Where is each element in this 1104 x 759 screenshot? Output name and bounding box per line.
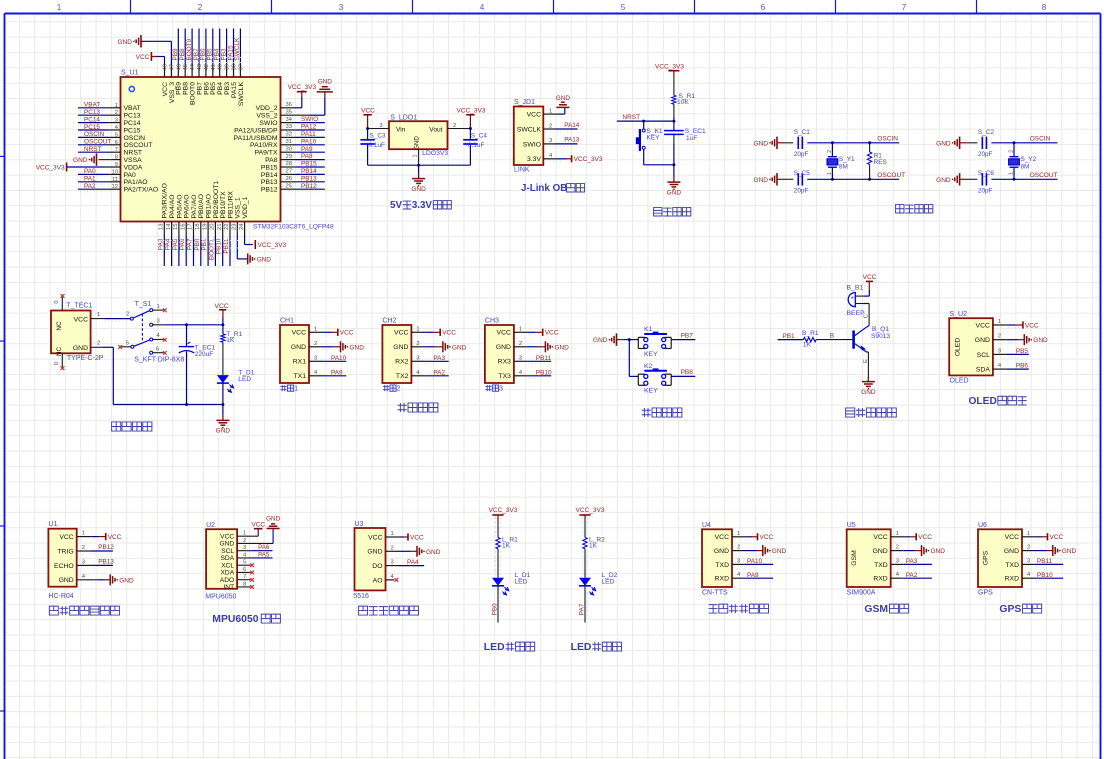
module U6 GPS body [978, 529, 1022, 587]
svg-text:PA7/AO: PA7/AO [191, 194, 198, 218]
power flag VCC [542, 329, 544, 336]
svg-text:PA3: PA3 [906, 558, 918, 565]
svg-text:GND: GND [754, 177, 769, 184]
mcu U1 pin 48 VCC (top) [164, 66, 166, 78]
svg-text:NRST: NRST [84, 146, 101, 153]
svg-text:2: 2 [1027, 545, 1030, 551]
svg-text:2: 2 [314, 341, 317, 347]
svg-text:OSCIN: OSCIN [1030, 136, 1051, 143]
title reset circuit [654, 208, 662, 216]
power flag VCC [757, 533, 759, 540]
svg-text:INT: INT [223, 584, 234, 591]
svg-text:1: 1 [412, 154, 418, 157]
wire gnd rail [368, 164, 471, 166]
svg-text:PC15: PC15 [84, 124, 100, 131]
svg-text:1: 1 [97, 312, 100, 318]
mcu U1 pin 21 PB10/TX (bottom) [222, 222, 224, 237]
svg-text:GND: GND [426, 549, 441, 556]
wire to resistor [497, 522, 499, 538]
svg-text:1: 1 [391, 531, 394, 537]
svg-text:OLED: OLED [969, 396, 997, 407]
module U2 MPU6050 body [206, 529, 237, 589]
wire buzzer top terminal to VCC [855, 295, 864, 297]
svg-text:PA3: PA3 [433, 355, 445, 362]
wire to ground [673, 165, 675, 177]
serial header CH2 [382, 325, 411, 383]
svg-text:3: 3 [82, 559, 85, 565]
svg-text:VSS_1: VSS_1 [235, 197, 242, 218]
svg-text:PB1/AO: PB1/AO [206, 194, 213, 219]
svg-text:VCC: VCC [220, 533, 234, 540]
svg-text:BEEP: BEEP [847, 310, 866, 317]
svg-text:2: 2 [737, 545, 740, 551]
LED L_D2 [579, 578, 591, 586]
svg-text:LED: LED [515, 578, 528, 585]
svg-text:48: 48 [163, 64, 169, 70]
svg-text:44: 44 [190, 63, 196, 70]
svg-text:20pF: 20pF [794, 188, 809, 195]
svg-text:1: 1 [1027, 531, 1030, 537]
svg-text:3: 3 [998, 348, 1001, 354]
svg-text:S_U1: S_U1 [121, 70, 139, 77]
svg-text:OSCOUT: OSCOUT [84, 139, 111, 146]
svg-text:Vout: Vout [429, 126, 442, 133]
svg-text:PC14: PC14 [124, 120, 141, 127]
serial header CH3 [485, 325, 514, 383]
mcu U1 pin 43 PB7 (top) [198, 66, 200, 78]
svg-text:2: 2 [998, 334, 1001, 340]
svg-text:GND: GND [118, 39, 133, 46]
mcu U1 pin 35 VSS_2 [281, 114, 311, 116]
svg-text:PB10: PB10 [1037, 572, 1053, 579]
mcu U1 pin 5 OSCIN [78, 136, 108, 138]
svg-text:26: 26 [286, 176, 292, 182]
svg-text:RXD: RXD [873, 576, 887, 583]
svg-text:GND: GND [73, 345, 88, 352]
mcu U1 pin 7 NRST [78, 151, 108, 153]
mcu U1 pin 47 VSS_3 (top) [170, 66, 172, 78]
svg-text:7: 7 [115, 147, 118, 153]
svg-text:8: 8 [115, 155, 118, 161]
mcu U1 pin 6 OSCOUT [78, 144, 108, 146]
capacitor C5 20pF [797, 173, 799, 185]
mcu U1 pin 28 PB15 [281, 166, 297, 168]
svg-text:1: 1 [737, 531, 740, 537]
svg-text:+: + [851, 295, 854, 301]
svg-text:28: 28 [286, 161, 292, 167]
svg-text:SWCLK: SWCLK [234, 37, 241, 60]
svg-text:CN-TTS: CN-TTS [702, 590, 728, 597]
svg-text:VCC: VCC [918, 534, 932, 541]
svg-text:VCC: VCC [136, 54, 150, 61]
selection dots top labels [170, 57, 244, 59]
switch stub pin6 [153, 352, 164, 354]
svg-text:BOOT1: BOOT1 [208, 238, 215, 260]
push button K2 KEY [644, 370, 667, 372]
svg-text:GND: GND [1033, 337, 1048, 344]
LDO regulator S_LDO1 body [389, 121, 448, 149]
svg-text:1: 1 [416, 326, 419, 332]
svg-text:PA2: PA2 [433, 369, 445, 376]
svg-text:13: 13 [159, 224, 165, 230]
svg-text:PB13: PB13 [301, 175, 317, 182]
svg-text:PB5: PB5 [1016, 348, 1029, 355]
mcu U1 pin 13 PA3/RX/AO (bottom) [163, 222, 165, 237]
svg-text:38: 38 [232, 64, 238, 70]
svg-text:24: 24 [239, 223, 245, 230]
svg-text:7: 7 [902, 2, 907, 12]
svg-text:S9013: S9013 [871, 333, 890, 340]
mcu U1 STM32F103C8T6 body [121, 77, 281, 222]
mcu U1 pin 31 PA10/RX [281, 144, 297, 146]
svg-text:1: 1 [115, 103, 118, 109]
svg-text:8M: 8M [1021, 164, 1030, 171]
mcu U1 pin 27 PB14 [281, 173, 297, 175]
svg-text:1: 1 [827, 172, 833, 175]
svg-text:PB13: PB13 [261, 179, 278, 186]
svg-text:LINK: LINK [514, 167, 530, 174]
svg-text:T_S1: T_S1 [135, 301, 152, 308]
svg-text:8: 8 [1042, 2, 1047, 12]
svg-text:PA1: PA1 [84, 176, 96, 183]
power flag VCC [367, 115, 369, 129]
svg-text:3: 3 [314, 355, 317, 361]
svg-text:GND: GND [931, 548, 946, 555]
svg-text:VCC: VCC [873, 534, 887, 541]
svg-text:2: 2 [115, 110, 118, 116]
mcu U1 pin 2 PC13 [78, 114, 108, 116]
svg-text:GND: GND [975, 337, 990, 344]
svg-text:10K: 10K [677, 99, 689, 106]
mcu U1 pin 45 PB8 (top) [184, 66, 186, 78]
svg-text:PC13: PC13 [84, 109, 100, 116]
svg-text:GND: GND [873, 548, 888, 555]
svg-text:GSM: GSM [864, 604, 888, 615]
svg-text:GND: GND [936, 140, 951, 147]
mcu U1 pin 8 VSSA [99, 159, 113, 161]
ground (C1 top) [776, 137, 778, 149]
svg-text:K2: K2 [644, 363, 653, 370]
svg-text:PB15: PB15 [301, 161, 317, 168]
ground [416, 546, 418, 557]
LED L_D1 [492, 578, 504, 586]
mcu U1 pin 15 PA5/AO (bottom) [178, 222, 180, 237]
svg-text:PA11/USB/DM: PA11/USB/DM [234, 135, 278, 142]
power flag VCC_3V3 [571, 155, 573, 162]
svg-text:23: 23 [232, 224, 238, 230]
wire buzzer bottom terminal to collector [855, 303, 864, 305]
svg-text:1: 1 [896, 531, 899, 537]
svg-text:PA5/AO: PA5/AO [176, 194, 183, 218]
svg-text:2: 2 [397, 384, 401, 393]
svg-text:S_Y2: S_Y2 [1021, 156, 1037, 163]
ground (C6 bottom) [959, 173, 961, 185]
svg-text:LED: LED [571, 642, 592, 653]
resistor L_R1 1K [496, 538, 500, 549]
svg-text:PB12: PB12 [98, 544, 114, 551]
svg-text:2: 2 [416, 341, 419, 347]
capacitor S_EC1 1uF [673, 121, 675, 130]
svg-text:VBAT: VBAT [124, 105, 141, 112]
svg-text:20pF: 20pF [978, 188, 993, 195]
svg-text:5: 5 [126, 340, 129, 346]
svg-text:31: 31 [286, 139, 292, 145]
svg-text:PB6: PB6 [1016, 363, 1029, 370]
svg-text:32: 32 [286, 132, 292, 138]
wire resistor to LED [497, 549, 499, 578]
ground [1052, 545, 1054, 556]
svg-text:VCC: VCC [715, 534, 729, 541]
title ultrasonic module [49, 606, 58, 615]
mcu U1 pin 17 PA7/AO (bottom) [193, 222, 195, 237]
mcu U1 pin 23 VSS_1 (bottom) [236, 222, 238, 237]
svg-text:MPU6050: MPU6050 [205, 594, 236, 601]
svg-text:S_LDO1: S_LDO1 [390, 115, 417, 122]
svg-text:PA11: PA11 [301, 131, 316, 138]
svg-text:14: 14 [166, 223, 172, 230]
svg-text:TXD: TXD [715, 562, 729, 569]
svg-text:3.3V: 3.3V [412, 200, 433, 211]
svg-text:LED: LED [602, 578, 615, 585]
svg-text:GPS: GPS [999, 604, 1021, 615]
svg-text:PA1/AO: PA1/AO [124, 179, 148, 186]
wire vin pin 3 [368, 128, 389, 130]
resistor T_R1 1K [221, 334, 225, 342]
svg-text:VCC_3V3: VCC_3V3 [489, 507, 518, 514]
svg-text:PA9/TX: PA9/TX [255, 150, 278, 157]
svg-text:5: 5 [621, 2, 626, 12]
svg-text:PB14: PB14 [301, 168, 317, 175]
svg-text:1K: 1K [589, 542, 598, 549]
ground (J-Link VCC pin) [556, 106, 569, 108]
svg-text:11: 11 [112, 177, 118, 183]
svg-text:8M: 8M [839, 164, 848, 171]
svg-text:1K: 1K [502, 542, 511, 549]
svg-text:46: 46 [176, 64, 182, 70]
svg-text:VCC: VCC [497, 330, 511, 337]
svg-text:18: 18 [195, 224, 201, 230]
svg-text:GND: GND [318, 78, 333, 85]
svg-text:1K: 1K [226, 337, 235, 344]
svg-text:PA10: PA10 [747, 558, 763, 565]
svg-text:AO: AO [373, 577, 383, 584]
svg-text:GND: GND [554, 344, 569, 351]
svg-text:3: 3 [115, 118, 118, 124]
svg-text:K1: K1 [644, 326, 653, 333]
svg-text:S_C4: S_C4 [471, 132, 487, 139]
power flag VCC [105, 533, 107, 540]
mcu U1 pin 16 PA6/AO (bottom) [185, 222, 187, 237]
svg-text:VCC_3V3: VCC_3V3 [576, 507, 605, 514]
svg-text:U6: U6 [978, 522, 987, 529]
svg-text:GND: GND [367, 549, 382, 556]
power flag VCC_3V3 (VDDA) [67, 166, 104, 168]
svg-text:19: 19 [202, 224, 208, 230]
svg-text:SWCLK: SWCLK [238, 82, 245, 107]
wire LED to rail [222, 383, 224, 404]
mcu U1 pin 42 PB6 (top) [205, 66, 207, 78]
wire emitter to ground [867, 380, 869, 382]
svg-text:OSCOUT: OSCOUT [124, 142, 153, 149]
wire vout pin 2 [448, 128, 471, 130]
svg-text:40: 40 [218, 64, 224, 70]
ground (keys) [616, 333, 618, 345]
svg-text:3: 3 [379, 123, 382, 129]
svg-text:MPU6050: MPU6050 [212, 614, 258, 625]
svg-text:2: 2 [198, 2, 203, 12]
svg-text:S_EC1: S_EC1 [685, 128, 706, 135]
svg-text:34: 34 [286, 117, 293, 123]
svg-text:B_B1: B_B1 [847, 285, 864, 292]
svg-text:GND: GND [59, 577, 74, 584]
svg-text:GND: GND [1062, 548, 1077, 555]
mcu U1 pin 46 PB9 (top) [177, 66, 179, 78]
svg-text:1uF: 1uF [686, 135, 697, 142]
title serial circuit [398, 403, 407, 412]
svg-text:6: 6 [156, 346, 159, 352]
power flag VCC (pin48) [150, 52, 152, 61]
power flag VCC [439, 329, 441, 336]
svg-text:S_KFT DIP-8X8: S_KFT DIP-8X8 [134, 357, 184, 364]
svg-text:VCC: VCC [292, 330, 306, 337]
mcu U1 pin 10 PA0 [78, 173, 108, 175]
svg-text:S_C1: S_C1 [794, 129, 810, 136]
svg-text:6: 6 [115, 140, 118, 146]
svg-text:ECHO: ECHO [54, 563, 74, 570]
svg-text:PA10: PA10 [301, 138, 317, 145]
svg-text:STM32F103C8T6_LQFP48: STM32F103C8T6_LQFP48 [253, 224, 334, 231]
svg-text:PB7: PB7 [681, 332, 694, 339]
svg-text:10: 10 [112, 169, 118, 175]
svg-text:B: B [830, 333, 834, 340]
svg-text:GPS: GPS [983, 550, 990, 565]
svg-text:3: 3 [339, 2, 344, 12]
svg-text:PA8: PA8 [301, 153, 313, 160]
svg-text:39: 39 [225, 64, 231, 70]
svg-text:22: 22 [224, 224, 230, 230]
svg-text:PA0: PA0 [124, 172, 137, 179]
svg-text:PB10/TX: PB10/TX [220, 191, 227, 219]
capacitor S_C4 0.1uF [469, 127, 472, 130]
wire key bottom [643, 149, 645, 165]
svg-text:37: 37 [238, 64, 244, 70]
mcu U1 pin 39 PB3 (top) [226, 66, 228, 78]
svg-text:GND: GND [714, 548, 729, 555]
svg-text:VCC: VCC [108, 534, 122, 541]
svg-text:30: 30 [286, 146, 292, 152]
svg-text:VCC: VCC [1025, 322, 1039, 329]
sub label 串口2 [383, 385, 389, 391]
svg-text:GND: GND [556, 95, 571, 102]
svg-text:3: 3 [157, 319, 160, 325]
wire to K2 [629, 375, 638, 377]
svg-text:GND: GND [257, 256, 272, 263]
svg-text:PC15: PC15 [124, 127, 141, 134]
svg-text:DO: DO [372, 563, 382, 570]
svg-text:GND: GND [1004, 548, 1019, 555]
power flag VCC [407, 533, 409, 540]
svg-text:PA14: PA14 [564, 122, 580, 129]
svg-text:3: 3 [1027, 558, 1030, 564]
svg-text:VCC: VCC [1005, 534, 1019, 541]
svg-text:42: 42 [204, 64, 210, 70]
svg-text:VCC: VCC [1050, 534, 1064, 541]
svg-text:XCL: XCL [221, 562, 234, 569]
wire K1 to PB7 [671, 339, 695, 341]
svg-text:6: 6 [761, 2, 766, 12]
svg-text:OSCIN: OSCIN [124, 135, 146, 142]
svg-text:PB0: PB0 [492, 603, 499, 615]
svg-text:VCC: VCC [394, 330, 408, 337]
svg-text:GND: GND [496, 344, 511, 351]
power flag VCC (U2) [254, 528, 263, 530]
svg-text:GND: GND [119, 577, 134, 584]
LDO gnd pin 1 wire [418, 149, 420, 165]
sub label 串口3 [485, 385, 491, 391]
switch stub pin4 [153, 339, 164, 341]
svg-text:GND: GND [219, 541, 234, 548]
svg-text:29: 29 [286, 154, 292, 160]
svg-text:OSCIN: OSCIN [877, 136, 898, 143]
svg-text:12: 12 [112, 184, 118, 190]
svg-text:SWIO: SWIO [301, 116, 318, 123]
svg-text:0.1uF: 0.1uF [369, 142, 385, 149]
svg-text:GND: GND [772, 548, 787, 555]
svg-text:PB8: PB8 [681, 369, 694, 376]
svg-text:1: 1 [294, 384, 298, 393]
svg-text:2: 2 [391, 545, 394, 551]
mcu U1 pin 40 PB4 (top) [219, 66, 221, 78]
TEC1 top stub pin 0 [61, 297, 63, 311]
power flag VCC [1047, 533, 1049, 540]
svg-text:VDDA: VDDA [124, 164, 143, 171]
svg-text:PA9: PA9 [747, 572, 759, 579]
switch stub pin5 left [122, 346, 131, 348]
svg-text:NRST: NRST [622, 114, 640, 121]
svg-text:0.1uF: 0.1uF [468, 142, 484, 149]
svg-text:S_C6: S_C6 [978, 170, 994, 177]
ground [340, 341, 342, 352]
svg-text:0: 0 [54, 301, 60, 304]
mcu U1 pin 24 VDD_1 (bottom) [244, 222, 246, 237]
mcu U1 pin 38 PA15 (top) [233, 66, 235, 78]
svg-text:TX2: TX2 [396, 373, 409, 380]
svg-text:VCC_3V3: VCC_3V3 [288, 84, 317, 91]
svg-text:RES: RES [874, 159, 887, 166]
net label PB1 wire [778, 339, 804, 341]
svg-text:PA10: PA10 [331, 355, 347, 362]
svg-text:PA4: PA4 [407, 559, 419, 566]
power flag VCC_3V3 [469, 115, 471, 129]
svg-text:3.3V: 3.3V [527, 156, 541, 163]
svg-text:S_C5: S_C5 [794, 170, 810, 177]
capacitor S_C3 0.1uF [366, 127, 369, 130]
svg-text:CH2: CH2 [382, 318, 396, 325]
svg-text:16: 16 [180, 224, 186, 230]
svg-text:33: 33 [286, 124, 292, 130]
resistor R1 RES [868, 141, 871, 144]
svg-text:SWIO: SWIO [259, 120, 277, 127]
svg-text:0: 0 [54, 362, 60, 365]
svg-text:PB11: PB11 [536, 355, 552, 362]
title light detect module [359, 606, 368, 615]
svg-text:OSCOUT: OSCOUT [877, 172, 905, 179]
svg-text:OLED: OLED [950, 377, 969, 384]
svg-text:27: 27 [286, 169, 292, 175]
mcu U1 pin 34 SWIO [281, 122, 297, 124]
svg-text:J-Link OB: J-Link OB [521, 183, 567, 194]
svg-text:PA13: PA13 [564, 137, 580, 144]
